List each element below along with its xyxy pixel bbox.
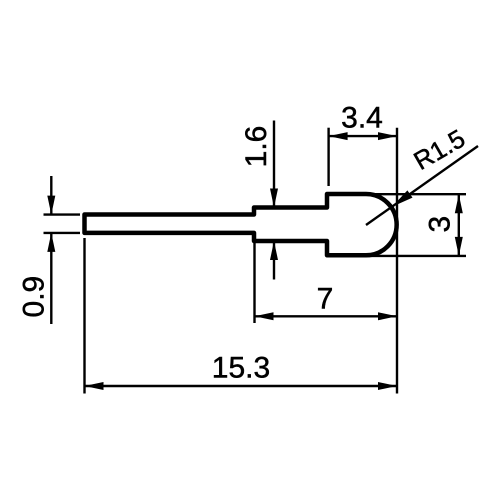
svg-text:3: 3 [423, 216, 456, 233]
svg-text:15.3: 15.3 [212, 352, 270, 385]
svg-text:3.4: 3.4 [341, 102, 383, 135]
svg-text:0.9: 0.9 [17, 276, 50, 318]
svg-text:7: 7 [317, 283, 334, 316]
svg-text:1.6: 1.6 [240, 126, 273, 168]
